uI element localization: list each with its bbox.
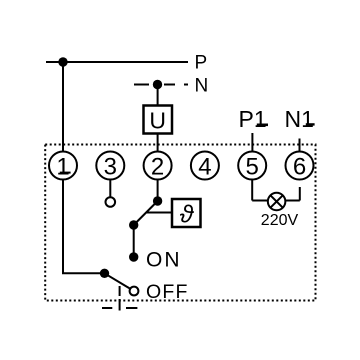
svg-text:P: P [195,52,208,73]
svg-text:ϑ: ϑ [180,201,195,229]
svg-text:2: 2 [151,154,164,181]
svg-text:3: 3 [104,154,117,181]
svg-text:1: 1 [56,154,69,181]
svg-text:ON: ON [146,249,182,272]
svg-text:220V: 220V [261,212,299,229]
svg-text:N: N [195,75,209,96]
svg-text:P1: P1 [239,106,267,132]
svg-text:4: 4 [198,154,211,181]
svg-text:5: 5 [246,154,259,181]
svg-text:6: 6 [293,154,306,181]
svg-text:OFF: OFF [146,281,189,303]
svg-text:U: U [149,108,166,134]
svg-text:N1: N1 [285,106,314,132]
